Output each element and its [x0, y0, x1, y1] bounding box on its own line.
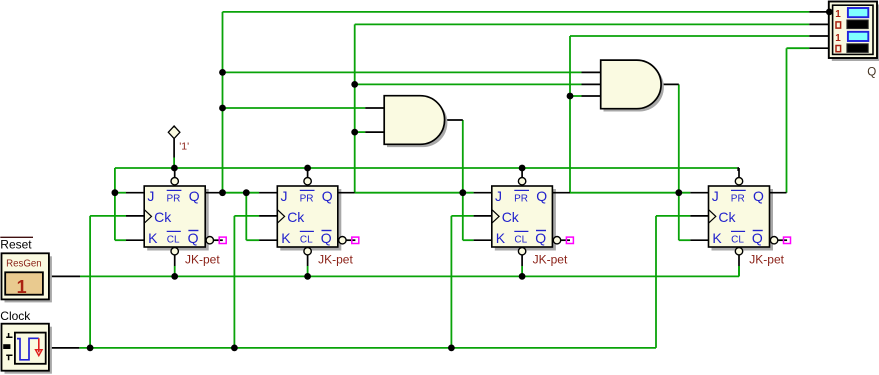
- reset generator value box: [5, 272, 43, 294]
- svg-text:CL: CL: [167, 235, 180, 246]
- flip-flop U4 JK-pet body: [709, 186, 770, 247]
- junction at display pin 1: [826, 9, 833, 16]
- wire Ck4 horizontal: [656, 215, 690, 217]
- flip-flop U1 pin stub Ck: [126, 215, 144, 217]
- wire Ck3 horizontal: [451, 215, 473, 217]
- svg-text:ResGen: ResGen: [6, 259, 42, 270]
- reset generator ResGen body: [2, 253, 49, 299]
- wire reset rail riser to CL4: [738, 266, 740, 276]
- flip-flop U3 pin stub CL with bubble: [521, 255, 523, 266]
- svg-text:J: J: [147, 188, 154, 204]
- junction constant-1 / PR1: [171, 165, 178, 172]
- wire Q2 vertical riser x=354.7: [354, 24, 356, 192]
- svg-text:Q: Q: [322, 188, 333, 204]
- junction reset rail / CL2: [304, 273, 311, 280]
- svg-text:Ck: Ck: [718, 209, 736, 225]
- junction reset rail / CL1: [171, 273, 178, 280]
- flip-flop U4 pin stub K: [690, 239, 708, 241]
- svg-text:JK-pet: JK-pet: [185, 252, 220, 266]
- svg-text:JK-pet: JK-pet: [749, 252, 784, 266]
- junction clock rail / FF2: [231, 345, 238, 352]
- svg-text:Q: Q: [321, 230, 332, 246]
- junction clock rail / FF1: [87, 345, 94, 352]
- wire Q1 vertical riser x=222.5: [222, 12, 224, 193]
- display bar row4 off: [847, 44, 868, 53]
- wire CL1 drop to reset rail: [174, 266, 176, 276]
- junction Q1 / AND2 in1: [219, 69, 226, 76]
- wire clock rail y=347.5: [79, 347, 656, 349]
- wire CL4 drop to reset rail: [738, 266, 740, 276]
- wire J1/K1 tie vertical x=114.9: [114, 168, 116, 240]
- svg-text:PR: PR: [167, 193, 181, 204]
- clock waveform box: [15, 333, 46, 364]
- svg-text:Ck: Ck: [154, 209, 172, 225]
- pin stubs AND2 inputs: [582, 71, 601, 73]
- wire CL3 drop to reset rail: [521, 266, 523, 276]
- pin stubs AND1 inputs: [365, 107, 384, 109]
- flip-flop U4 pin stub CL with bubble: [738, 255, 740, 266]
- svg-text:JK-pet: JK-pet: [533, 252, 568, 266]
- display bar row3 on: [848, 32, 868, 41]
- wire reset rail y=276.4: [80, 275, 739, 277]
- clock generator shadow: [5, 327, 52, 374]
- wire Q1 to display bit1 y=11.9: [223, 11, 810, 13]
- flip-flop U4 pin stub Ck: [690, 215, 708, 217]
- svg-text:Q: Q: [867, 66, 876, 79]
- gate G1 shadow: [387, 99, 447, 148]
- svg-text:Q: Q: [535, 230, 546, 246]
- reset generator shadow: [5, 256, 52, 302]
- junction J2/K2 tie: [243, 189, 250, 196]
- svg-text:Q: Q: [752, 230, 763, 246]
- display probe shadow: [832, 5, 879, 62]
- wire Q3 vertical riser x=570: [569, 36, 571, 193]
- flip-flop U1 pin stub Q: [205, 192, 222, 194]
- flip-flop U4 pin stub Q: [770, 192, 787, 194]
- svg-text:J: J: [712, 188, 719, 204]
- junction Q1 output: [219, 189, 226, 196]
- flip-flop U1 pin stub PR with bubble: [174, 168, 176, 178]
- junction Q3 / AND2 in3: [567, 93, 574, 100]
- display bar row2 off: [847, 20, 868, 29]
- junction J1/K1 tie: [112, 189, 119, 196]
- flip-flop U2 unconnected Qbar marker: [352, 237, 359, 243]
- wire Q3 to display bit3 y=35.8: [570, 35, 809, 37]
- pin stub constant '1': [173, 139, 175, 158]
- display probe outer body: [829, 2, 877, 59]
- display digit row4 value 0: [836, 46, 841, 52]
- wire Q2 to AND2 input2 y=84.6: [355, 83, 582, 85]
- pin stub display input 1: [809, 11, 829, 13]
- flip-flop U3 pin stub Q: [552, 192, 570, 194]
- svg-text:K: K: [712, 230, 722, 246]
- wire AND1 output drop x=462.8: [462, 120, 464, 240]
- svg-text:PR: PR: [300, 193, 314, 204]
- svg-text:PR: PR: [731, 193, 745, 204]
- junction clock rail / FF3: [448, 345, 455, 352]
- wire K4 horizontal: [679, 239, 691, 241]
- flip-flop U2 JK-pet body: [277, 186, 338, 247]
- junction rail / PR2: [304, 165, 311, 172]
- flip-flop U2 JK-pet shadow: [280, 189, 341, 251]
- svg-text:Ck: Ck: [287, 209, 305, 225]
- svg-text:CL: CL: [300, 235, 313, 246]
- constant source diamond: [168, 126, 180, 139]
- wire clock riser FF2 x=234.4: [233, 216, 235, 348]
- flip-flop U4 unconnected Qbar marker: [784, 237, 791, 243]
- wire constant '1' drop: [173, 158, 175, 169]
- svg-text:K: K: [496, 230, 506, 246]
- flip-flop U4 pin Qbar bubble and stub: [777, 239, 787, 241]
- wire AND2 output drop x=678.8: [678, 84, 680, 240]
- display bar row1 on: [848, 8, 868, 17]
- clock generator body: [2, 324, 49, 371]
- wire Q4 vertical riser x=786.5: [786, 48, 788, 193]
- wire K1 horizontal: [115, 239, 126, 241]
- svg-text:Q: Q: [753, 188, 764, 204]
- svg-text:J: J: [495, 188, 502, 204]
- flip-flop U2 pin Qbar bubble and stub: [345, 239, 355, 241]
- flip-flop U3 JK-pet shadow: [495, 189, 556, 251]
- svg-text:Clock: Clock: [0, 309, 31, 323]
- wire J1 horizontal: [115, 192, 126, 194]
- pin stub AND2 output: [660, 83, 678, 85]
- junction AND1 out / J3: [459, 189, 466, 196]
- flip-flop U3 pin stub K: [474, 239, 492, 241]
- wire Q1 to AND1 input1 y=107.8: [223, 107, 366, 109]
- junction AND2 out / J4: [675, 189, 682, 196]
- wire clock riser FF4 x=656: [655, 216, 657, 348]
- pin stub display input 4: [809, 47, 829, 49]
- junction Q2 / AND2 in2: [351, 81, 358, 88]
- wire Q3 to AND2 input3 y=95.9: [570, 95, 582, 97]
- flip-flop U3 clock triangle: [492, 210, 499, 224]
- flip-flop U3 JK-pet body: [492, 186, 553, 247]
- pin stub display input 2: [809, 23, 829, 25]
- svg-text:PR: PR: [514, 193, 528, 204]
- svg-text:Ck: Ck: [502, 209, 520, 225]
- flip-flop U2 clock triangle: [277, 210, 284, 224]
- svg-text:K: K: [148, 230, 158, 246]
- wire CL2 drop to reset rail: [307, 266, 309, 276]
- svg-text:1: 1: [17, 277, 27, 297]
- flip-flop U2 pin stub J: [259, 192, 277, 194]
- svg-text:Reset: Reset: [0, 237, 32, 251]
- flip-flop U1 pin stub K: [126, 239, 144, 241]
- display digit row2 value 0: [836, 22, 841, 28]
- svg-text:Q: Q: [536, 188, 547, 204]
- flip-flop U2 pin stub Q: [338, 192, 355, 194]
- wire clock riser FF3 x=451.4: [450, 216, 452, 348]
- flip-flop U1 clock triangle: [144, 210, 151, 224]
- gate G1 body: [384, 96, 444, 145]
- flip-flop U1 JK-pet body: [144, 186, 205, 247]
- display probe inner frame: [833, 5, 873, 54]
- svg-text:CL: CL: [514, 235, 527, 246]
- flip-flop U3 unconnected Qbar marker: [566, 237, 573, 243]
- wire J2/K2 tie vertical x=246.3: [245, 193, 247, 241]
- flip-flop U3 pin stub Ck: [474, 215, 492, 217]
- junction rail / PR3: [519, 165, 526, 172]
- wire Ck1 horizontal: [90, 215, 126, 217]
- flip-flop U1 pin stub CL with bubble: [174, 255, 176, 266]
- svg-text:'1': '1': [179, 140, 189, 152]
- svg-text:Q: Q: [189, 188, 200, 204]
- clock crystal symbol: [6, 333, 12, 360]
- flip-flop U2 pin stub K: [259, 239, 277, 241]
- flip-flop U4 pin stub PR with bubble: [738, 168, 740, 178]
- clock waveform blue trace: [17, 338, 39, 360]
- flip-flop U1 pin stub J: [126, 192, 144, 194]
- svg-text:CL: CL: [731, 235, 744, 246]
- flip-flop U2 pin stub CL with bubble: [307, 255, 309, 266]
- flip-flop U1 JK-pet shadow: [147, 189, 209, 251]
- clock falling edge red marker: [38, 338, 40, 352]
- pin stub display input 3: [809, 35, 829, 37]
- gate G2 body: [601, 60, 661, 109]
- wire Q3 to J4: [570, 192, 690, 194]
- flip-flop U4 clock triangle: [709, 210, 716, 224]
- wire Q1 to AND2 input1 y=73.3: [223, 71, 582, 73]
- gate G2 shadow: [604, 63, 664, 112]
- svg-text:Q: Q: [188, 230, 199, 246]
- wire Q2 to AND1 input2 y=132.1: [355, 131, 366, 133]
- flip-flop U4 pin stub J: [690, 192, 708, 194]
- flip-flop U1 unconnected Qbar marker: [219, 237, 226, 243]
- svg-text:J: J: [281, 188, 288, 204]
- junction Q2 / AND1 in2: [351, 129, 358, 136]
- flip-flop U3 pin stub PR with bubble: [521, 168, 523, 178]
- flip-flop U4 JK-pet shadow: [712, 189, 774, 251]
- wire clock riser FF1 x=89.8: [89, 216, 91, 348]
- svg-text:JK-pet: JK-pet: [318, 252, 353, 266]
- flip-flop U2 pin stub PR with bubble: [307, 168, 309, 178]
- junction reset rail / CL3: [519, 273, 526, 280]
- pin stub corner into PR4: [737, 167, 739, 169]
- flip-flop U3 pin stub J: [474, 192, 492, 194]
- pin stub AND1 output: [445, 119, 463, 121]
- pin stub Clock output: [49, 347, 79, 349]
- svg-text:K: K: [281, 230, 291, 246]
- svg-text:1: 1: [835, 33, 841, 44]
- wire K3 horizontal: [463, 239, 474, 241]
- svg-text:1: 1: [835, 9, 841, 20]
- wire constant-1 / preset rail y=168: [115, 167, 737, 169]
- flip-flop U1 pin Qbar bubble and stub: [213, 239, 223, 241]
- flip-flop U2 pin stub Ck: [259, 215, 277, 217]
- junction Q1 / AND1 in1: [219, 105, 226, 112]
- pin stub ResGen output: [49, 275, 80, 277]
- wire Q4 to display bit4 y=48.1: [787, 47, 810, 49]
- wire Ck2 horizontal: [234, 215, 259, 217]
- flip-flop U3 pin Qbar bubble and stub: [560, 239, 570, 241]
- wire Q1 to J2: [223, 192, 260, 194]
- wire K2 horizontal: [246, 239, 259, 241]
- wire Q2 to display bit2 y=24.3: [355, 23, 810, 25]
- wire Q2 to J3: [355, 192, 474, 194]
